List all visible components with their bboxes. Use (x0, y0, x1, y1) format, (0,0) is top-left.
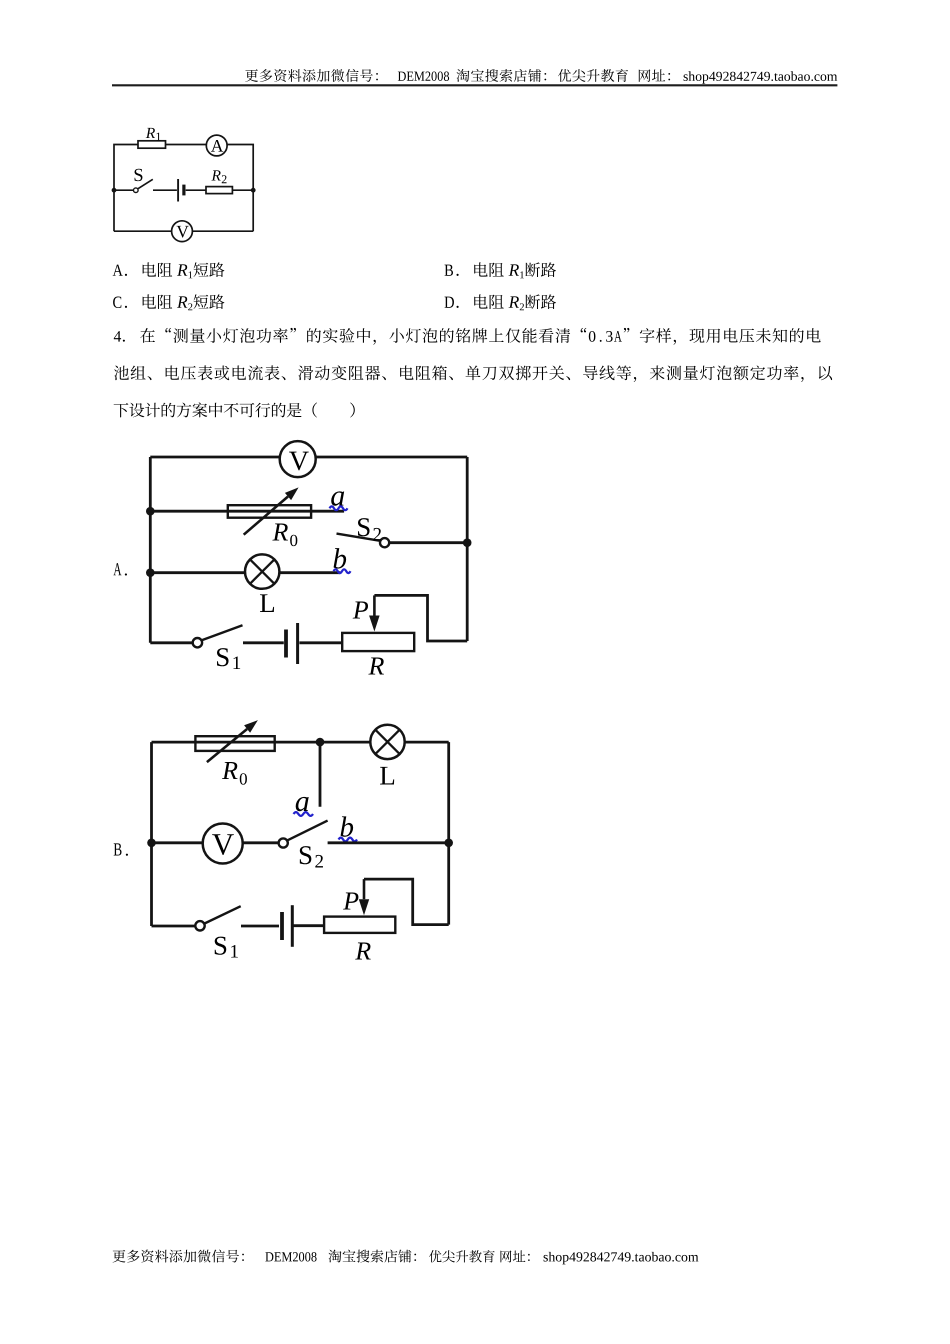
label R2 (211, 170, 220, 180)
battery (284, 630, 288, 658)
wire R2 to right edge (232, 189, 253, 191)
node right (mid wire) (251, 188, 256, 193)
wiper arrow P (363, 879, 366, 899)
label A. (113, 563, 121, 575)
terminal a label (296, 797, 309, 811)
wire top left (150, 456, 279, 459)
wire S1 to battery (241, 925, 279, 928)
label R (368, 657, 384, 674)
wire lamp to right corner (405, 741, 449, 744)
wire bottom left (150, 641, 193, 644)
lamp L (245, 554, 279, 588)
option A text (113, 262, 225, 278)
label S2 (300, 846, 312, 864)
voltmeter V (172, 221, 193, 242)
circuit: question 3 figure (112, 128, 256, 242)
node left lamp row (146, 568, 155, 577)
option B text (445, 262, 557, 278)
rheostat R0 box (228, 505, 311, 518)
label R1 (146, 128, 155, 138)
wavy underline a (294, 812, 314, 816)
voltmeter V (280, 441, 316, 477)
resistor R2 (206, 187, 232, 194)
wire S2 to right edge (389, 541, 467, 544)
wire battery to R (293, 924, 324, 927)
label S1 (215, 937, 227, 955)
resistor R box (342, 633, 414, 651)
wavy underline b (339, 838, 357, 842)
wavy underline b (334, 569, 351, 573)
footer text (113, 1250, 699, 1265)
wire battery to R (299, 641, 342, 644)
wire left edge (150, 742, 153, 926)
label R0 (222, 762, 238, 779)
wire top (through R0) (152, 741, 371, 744)
terminal b label (341, 816, 354, 836)
switch S1 (193, 638, 202, 647)
voltmeter V (203, 824, 243, 864)
battery (177, 179, 179, 202)
battery (280, 912, 284, 940)
node right middle row (444, 839, 453, 848)
wiper arrow P (373, 595, 376, 615)
rheostat R0 box (195, 736, 274, 751)
label L (380, 767, 394, 785)
rheostat R0 arrow (207, 729, 247, 762)
question line 3 (114, 403, 355, 418)
option D text (445, 294, 557, 310)
label P (353, 601, 368, 618)
wire switch to battery (153, 189, 177, 191)
wavy underline a (330, 506, 348, 510)
label R (355, 942, 371, 959)
wire S1 to battery (243, 641, 284, 644)
wire lamp to b (279, 571, 340, 574)
wire top right (316, 456, 468, 459)
wire right edge (447, 742, 450, 925)
wire V to S2 (243, 841, 279, 844)
lamp L (370, 725, 404, 759)
ammeter A (206, 135, 227, 156)
question line 1 (114, 328, 821, 345)
wire bottom right (192, 230, 253, 232)
question line 2 (114, 365, 832, 382)
node left rheostat row (146, 507, 155, 516)
node left (mid wire) (112, 188, 117, 193)
circuit A (113, 441, 471, 674)
wire lamp row left (150, 571, 245, 574)
wire a-branch (319, 742, 322, 807)
header text (245, 69, 837, 84)
switch S (134, 188, 139, 193)
wire outer loop (114, 145, 138, 232)
node left middle row (147, 839, 156, 848)
terminal b label (334, 548, 347, 568)
wire bottom left (114, 230, 172, 232)
wire wiper step (364, 879, 449, 925)
wire rheostat row (150, 510, 344, 513)
switch S1 (195, 921, 204, 930)
header rule (112, 84, 837, 86)
label B. (114, 843, 122, 855)
wire right edge (466, 457, 469, 641)
switch S2 (337, 534, 381, 541)
terminal a label (331, 491, 344, 505)
label R0 (272, 523, 288, 540)
resistor R box (324, 917, 395, 933)
resistor R1 (138, 141, 166, 148)
switch S2 (279, 838, 288, 847)
label L (260, 594, 274, 612)
label P (343, 892, 358, 909)
rheostat R0 arrow (244, 497, 288, 535)
label S2 (358, 518, 370, 536)
wire bottom left (152, 925, 195, 928)
wire mid left (114, 189, 134, 191)
wire left edge (149, 457, 152, 643)
node a-branch (316, 738, 325, 747)
option C text (113, 294, 224, 310)
wire middle left (152, 841, 203, 844)
label S1 (217, 648, 229, 666)
wire battery to R2 (186, 189, 206, 191)
wire middle right (328, 841, 449, 844)
circuit B (114, 720, 453, 959)
node right S2 row (463, 538, 472, 547)
wire wiper step (374, 595, 467, 641)
